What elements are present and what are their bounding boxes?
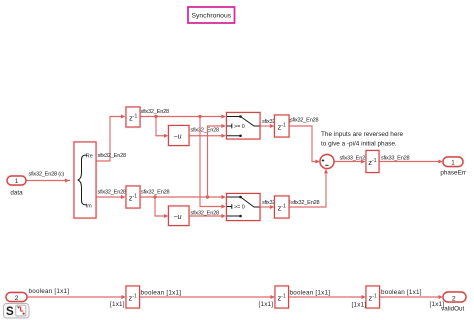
svg-text:boolean [1x1]: boolean [1x1] [29,288,70,295]
delay Z3 [126,186,140,208]
svg-text:boolean [1x1]: boolean [1x1] [141,289,182,296]
svg-text:sfix32_En28: sfix32_En28 [291,200,319,206]
svg-text:−u: −u [174,134,182,141]
sum S1 [320,155,334,169]
svg-text:[1x1]: [1x1] [352,302,367,309]
svg-text:Im: Im [86,204,92,210]
svg-text:to give a -pi/4 initial phase.: to give a -pi/4 initial phase. [321,141,397,148]
junction dot A [154,115,157,118]
wire D2 to D3 [289,295,367,299]
junction dot C [153,195,156,198]
svg-text:Synchronous: Synchronous [191,13,231,20]
wire Z2 to sum S1 [289,126,320,164]
svg-text:2: 2 [15,295,19,302]
junction dot D [206,195,209,198]
wire D1 to D2 [140,295,276,299]
wire G1 to SW1 bottom [189,134,226,138]
svg-text:[1x1]: [1x1] [259,301,274,308]
wire branch to gain G1 [156,117,169,138]
svg-text:sfix32_En28: sfix32_En28 [141,190,169,196]
svg-text:sfix33_En28: sfix33_En28 [340,156,368,162]
wire Z1 to switch SW1 top [140,115,226,119]
svg-text:2: 2 [452,295,456,302]
wire cross tap B to switch SW2 control [200,117,226,209]
svg-text:sfix33_En28: sfix33_En28 [381,156,409,162]
outport 1 phaseErr [440,157,466,177]
delay Z1 [126,107,140,127]
wire Re out to delay Z1 [96,115,126,162]
wire Z4 to sum S1 bottom [289,169,328,207]
svg-text:>= 0: >= 0 [234,205,245,211]
delay D3 [366,286,380,308]
switch SW1 [227,113,261,140]
svg-text:1: 1 [451,159,455,166]
svg-text:boolean [1x1]: boolean [1x1] [381,289,422,296]
svg-text:sfix32_En28: sfix32_En28 [98,190,126,196]
wire inport2 to delay D1 [27,295,126,299]
inport 2 valid [6,293,27,302]
svg-text:−u: −u [174,214,182,221]
svg-text:sfix32_En28: sfix32_En28 [191,128,219,134]
wire sum S1 to delay Z5 [334,160,366,164]
wire Im out to delay Z3 [96,195,126,199]
annotation Synchronous [188,7,235,23]
svg-text:sfix32_En28: sfix32_En28 [141,109,169,115]
svg-text:Re: Re [86,153,93,159]
gain G1 -u [169,126,190,146]
wire Z5 to outport phaseErr [379,160,443,164]
svg-text:S: S [6,306,14,318]
wire data to complex block [26,179,70,183]
wire G2 to SW2 bottom [189,214,226,218]
svg-text:1: 1 [15,178,19,185]
inport 1 data [7,176,26,197]
svg-text:sfix32_En28: sfix32_En28 [98,153,126,159]
switch SW2 [227,194,261,221]
gain G2 -u [169,206,190,226]
svg-text:sfix32_En28: sfix32_En28 [290,118,318,124]
delay Z5 [366,151,379,173]
complex to real-imag block U1 [74,142,96,218]
delay Z4 [275,196,290,218]
svg-text:[1x1]: [1x1] [110,301,125,308]
outport 2 validOut [441,292,466,313]
delay D2 [275,286,289,308]
svg-text:The inputs are reversed here: The inputs are reversed here [321,131,404,138]
wire SW1 to delay Z2 [260,124,275,128]
badge Simulink S [4,304,30,319]
svg-text:>= 0: >= 0 [234,124,245,130]
svg-text:phaseErr: phaseErr [440,170,466,177]
wire Z3 to switch SW2 top [140,195,226,199]
wire branch to gain G2 [155,197,169,218]
junction dot B [198,115,201,118]
svg-text:validOut: validOut [441,306,464,313]
wire SW2 to delay Z4 [260,205,275,209]
wire D3 to outport validOut [380,295,444,299]
svg-text:sfix32_En28: sfix32_En28 [191,211,219,217]
svg-text:data: data [10,190,23,197]
delay D1 [126,286,140,308]
svg-text:sfix32_En28 (c): sfix32_En28 (c) [29,172,65,178]
svg-text:boolean [1x1]: boolean [1x1] [290,289,331,296]
delay Z2 [275,115,290,137]
wire cross tap D to switch SW1 control [208,124,227,197]
